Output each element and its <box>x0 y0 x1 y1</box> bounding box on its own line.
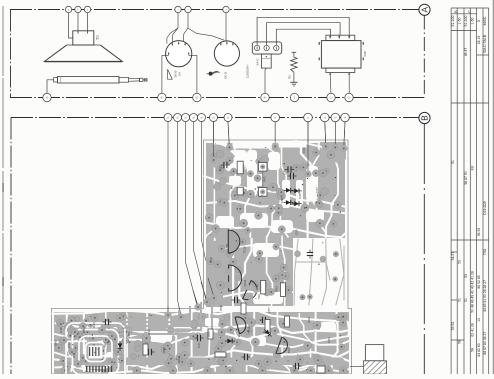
svg-text:1-50: 1-50 <box>471 17 475 24</box>
section B border <box>11 117 419 119</box>
thin traces lower-right <box>294 239 344 305</box>
section A border <box>10 9 420 11</box>
svg-text:TS11: TS11 <box>243 279 247 286</box>
DIN socket SK-D <box>214 41 239 66</box>
svg-text:53 52: 53 52 <box>451 322 455 331</box>
dark speckles <box>63 147 343 370</box>
svg-text:R2: R2 <box>287 75 291 79</box>
svg-text:28 19: 28 19 <box>477 36 481 45</box>
svg-text:53: 53 <box>458 260 462 264</box>
svg-text:R57: R57 <box>243 165 247 171</box>
svg-text:C47: C47 <box>315 187 319 193</box>
page edge line <box>2 6 4 374</box>
svg-text:46 47: 46 47 <box>464 48 468 57</box>
bottom copper band <box>60 358 344 366</box>
resistor <box>293 52 295 57</box>
svg-text:D46: D46 <box>298 193 302 199</box>
transformer S45 <box>321 41 361 69</box>
svg-text:1-50: 1-50 <box>458 17 462 24</box>
svg-text:S45: S45 <box>363 51 367 57</box>
svg-text:C66: C66 <box>327 337 331 343</box>
antenna wire + terminal <box>47 80 54 94</box>
DIN socket SK-B <box>166 41 192 67</box>
svg-text:R41: R41 <box>72 352 76 358</box>
svg-text:SA-C: SA-C <box>255 59 259 66</box>
resistors <box>237 161 243 174</box>
svg-text:C58: C58 <box>225 244 229 250</box>
svg-text:53: 53 <box>464 274 468 278</box>
svg-text:98 87 90: 98 87 90 <box>464 171 468 184</box>
svg-text:13: 13 <box>477 318 481 322</box>
svg-text:R58: R58 <box>219 305 223 311</box>
svg-text:88 87 83: 88 87 83 <box>483 341 487 354</box>
speaker LS transformer box <box>73 31 94 45</box>
svg-text:C42: C42 <box>67 342 71 348</box>
svg-text:58: 58 <box>471 348 475 352</box>
pads <box>55 149 347 375</box>
svg-text:C14: C14 <box>209 257 213 263</box>
fuse wire to terminal <box>265 68 266 94</box>
svg-text:51: 51 <box>451 160 455 164</box>
svg-text:KU: KU <box>471 165 475 170</box>
mains connector <box>252 42 281 54</box>
capacitors <box>221 162 230 168</box>
svg-text:5Ω: 5Ω <box>95 35 99 40</box>
svg-text:A: A <box>420 7 429 13</box>
entry wires over copper <box>213 122 215 160</box>
svg-text:50 48 46 49 40 43 42 41 28: 50 48 46 49 40 43 42 41 28 <box>471 271 475 313</box>
svg-text:SK-B: SK-B <box>174 70 178 77</box>
transformer wires <box>257 17 349 45</box>
solid copper slab left <box>206 241 223 307</box>
svg-text:38 27: 38 27 <box>483 332 487 341</box>
svg-text:TS10: TS10 <box>243 246 247 254</box>
pennant symbol <box>168 69 173 79</box>
white channels <box>52 141 349 373</box>
svg-text:51-100: 51-100 <box>464 16 468 27</box>
label B <box>419 112 430 123</box>
svg-text:C40: C40 <box>283 169 287 175</box>
top corner blobs <box>207 145 235 168</box>
svg-text:R61: R61 <box>263 176 267 182</box>
terminals under SK-B <box>162 55 169 94</box>
svg-text:R60: R60 <box>307 317 311 323</box>
svg-text:56 55: 56 55 <box>477 228 481 237</box>
speaker cone <box>67 44 101 46</box>
svg-text:C57: C57 <box>267 307 271 313</box>
svg-text:SM-C SM-B: SM-C SM-B <box>483 34 487 53</box>
svg-text:C59: C59 <box>127 332 131 338</box>
speaker terminals <box>65 6 71 12</box>
svg-text:C61: C61 <box>197 342 201 348</box>
svg-text:TS9: TS9 <box>257 294 261 300</box>
svg-text:R44: R44 <box>92 322 96 328</box>
svg-text:51: 51 <box>464 298 468 302</box>
svg-text:C52: C52 <box>219 165 223 171</box>
svg-text:TS8: TS8 <box>483 249 487 255</box>
svg-text:62 41 28: 62 41 28 <box>471 323 475 336</box>
svg-text:TS14: TS14 <box>247 326 251 334</box>
PCB board outline <box>52 140 352 374</box>
label A <box>419 4 430 15</box>
parts index table <box>451 0 493 374</box>
svg-text:DIN: DIN <box>178 72 182 77</box>
svg-text:R63: R63 <box>177 357 181 363</box>
socket SK-B wires <box>172 13 178 42</box>
svg-text:C55: C55 <box>162 347 166 353</box>
wire entry pads <box>210 156 217 163</box>
ground <box>293 72 295 82</box>
svg-text:86 52 85: 86 52 85 <box>477 275 481 288</box>
diodes <box>284 188 294 193</box>
svg-text:C: C <box>467 10 471 13</box>
svg-text:SK-D: SK-D <box>224 71 228 79</box>
pin squares <box>258 163 267 172</box>
svg-text:58: 58 <box>458 340 462 344</box>
svg-text:D50: D50 <box>280 197 284 203</box>
transistors upper arm <box>228 230 240 253</box>
svg-text:R50: R50 <box>207 331 211 337</box>
wires into upper board <box>213 122 215 160</box>
svg-text:C48: C48 <box>59 327 63 333</box>
svg-text:TS15: TS15 <box>287 346 291 354</box>
svg-text:110/220V~: 110/220V~ <box>246 64 250 79</box>
ferrite rod antenna <box>58 77 120 83</box>
svg-text:51-100: 51-100 <box>451 16 455 27</box>
fuse SA-C <box>261 54 271 68</box>
svg-text:TS2: TS2 <box>103 342 107 348</box>
svg-text:R54: R54 <box>82 327 86 333</box>
earphone icon <box>209 72 213 76</box>
svg-text:R53: R53 <box>275 286 279 292</box>
svg-text:GND: GND <box>54 340 58 346</box>
svg-text:C41: C41 <box>302 147 306 153</box>
svg-text:51: 51 <box>458 298 462 302</box>
svg-text:84 82 83: 84 82 83 <box>477 343 481 356</box>
cutout drawing <box>365 345 383 361</box>
section B terminals left group <box>164 114 172 122</box>
svg-text:54-57: 54-57 <box>451 252 455 261</box>
svg-text:C45: C45 <box>117 357 121 363</box>
copper base <box>54 143 349 374</box>
svg-text:C65: C65 <box>295 229 299 235</box>
svg-text:D19-D26: D19-D26 <box>483 201 487 215</box>
transformer terminals <box>329 75 332 94</box>
svg-text:MISC: MISC <box>483 16 487 25</box>
svg-text:R62: R62 <box>147 329 151 335</box>
fan-out nested traces <box>88 298 212 358</box>
svg-text:B: B <box>420 115 429 121</box>
long wires to lower board <box>167 122 169 313</box>
transistors lower arm <box>235 315 248 334</box>
speaker wires <box>69 13 73 38</box>
svg-text:R52: R52 <box>255 284 259 290</box>
svg-text:44 45 31 50 26 28 27: 44 45 31 50 26 28 27 <box>483 280 487 312</box>
svg-text:5: 5 <box>477 20 481 22</box>
